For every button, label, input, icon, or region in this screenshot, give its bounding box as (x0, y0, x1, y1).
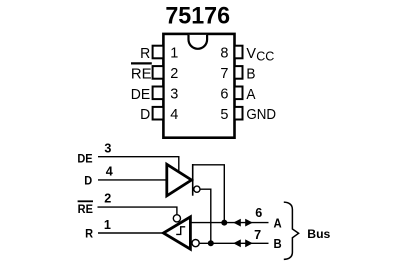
wire R from receiver output (98, 232, 164, 234)
svg-text:3: 3 (170, 87, 178, 103)
svg-text:RE: RE (78, 203, 93, 217)
arrow right on A (245, 219, 253, 227)
svg-text:A: A (274, 216, 282, 231)
svg-text:RE: RE (131, 65, 152, 82)
driver inverting bubble (194, 186, 200, 192)
driver output bar (192, 164, 194, 196)
wire bus line B (199, 242, 268, 244)
arrow right on B (245, 239, 253, 247)
svg-text:75176: 75176 (165, 2, 230, 30)
svg-text:B: B (274, 236, 282, 251)
junction dot on B (208, 240, 214, 246)
arrow left on A (233, 219, 241, 227)
label VCC pin8 (246, 46, 274, 64)
svg-text:2: 2 (170, 66, 178, 82)
svg-text:B: B (246, 66, 255, 83)
pin 7 stub (235, 66, 243, 79)
svg-text:4: 4 (106, 165, 113, 179)
svg-text:1: 1 (104, 218, 111, 232)
svg-text:8: 8 (220, 46, 228, 62)
svg-text:6: 6 (220, 87, 228, 103)
receiver triangle R1 (163, 217, 190, 249)
wire RE to receiver enable (98, 207, 177, 215)
svg-text:DE: DE (77, 152, 92, 166)
arrow left on B (233, 239, 241, 247)
junction dot on A (221, 220, 227, 226)
wire DE to driver enable (98, 157, 179, 173)
wire bus line A (191, 222, 269, 224)
bus brace (284, 202, 299, 259)
receiver inverting input bubble (192, 240, 199, 247)
label RE (logic) (78, 201, 94, 216)
pin 3 stub (153, 87, 164, 100)
svg-text:2: 2 (104, 192, 111, 206)
svg-text:DE: DE (131, 86, 151, 103)
wire driver inverting output to B (200, 189, 211, 243)
svg-text:6: 6 (255, 206, 262, 220)
svg-text:1: 1 (170, 46, 178, 62)
svg-text:D: D (140, 107, 150, 124)
receiver enable bubble (173, 215, 180, 222)
driver triangle D1 (167, 164, 192, 196)
wire D to driver input (98, 179, 166, 181)
pin 8 stub (235, 46, 243, 59)
svg-text:Bus: Bus (307, 227, 330, 241)
svg-text:R: R (140, 46, 150, 63)
pin 5 stub (235, 107, 243, 120)
svg-text:V: V (246, 46, 256, 62)
wire driver noninverting output to A (193, 165, 224, 223)
svg-text:7: 7 (254, 228, 261, 242)
notch (189, 35, 208, 49)
svg-text:CC: CC (256, 50, 274, 64)
IC body U1 (163, 34, 234, 138)
svg-text:7: 7 (220, 66, 228, 82)
pin 1 stub (153, 46, 164, 59)
svg-text:D: D (84, 174, 92, 188)
svg-text:5: 5 (220, 107, 228, 123)
svg-text:3: 3 (104, 142, 111, 156)
pin 6 stub (235, 87, 243, 100)
svg-text:A: A (246, 86, 255, 103)
pin 4 stub (153, 107, 164, 120)
svg-text:GND: GND (246, 106, 276, 123)
svg-text:4: 4 (170, 107, 178, 123)
svg-text:R: R (85, 227, 94, 241)
pin 2 stub (153, 66, 164, 79)
receiver hysteresis symbol (176, 227, 185, 235)
label RE pin2 (131, 63, 152, 82)
